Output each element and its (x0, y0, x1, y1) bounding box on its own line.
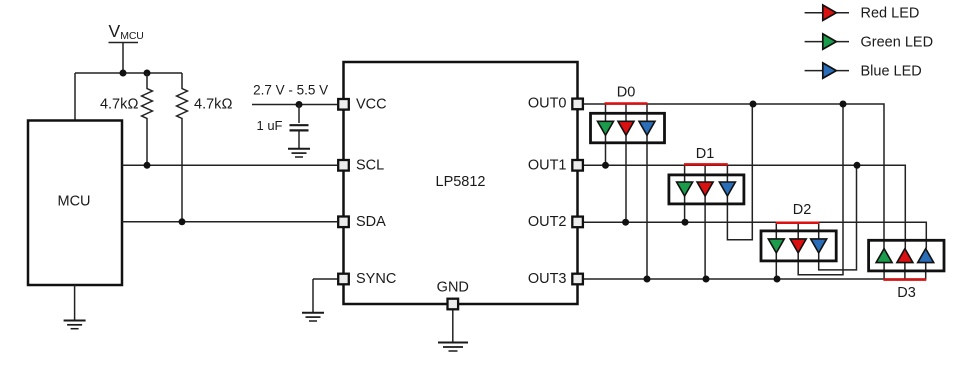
svg-text:Red LED: Red LED (861, 6, 920, 22)
svg-text:D2: D2 (793, 202, 812, 218)
svg-text:MCU: MCU (120, 30, 143, 42)
svg-text:SCL: SCL (356, 157, 384, 173)
svg-text:V: V (109, 21, 121, 41)
svg-text:D1: D1 (696, 146, 715, 162)
svg-text:MCU: MCU (57, 194, 90, 210)
svg-text:4.7kΩ: 4.7kΩ (100, 97, 139, 113)
svg-text:D3: D3 (897, 285, 916, 301)
svg-text:2.7 V - 5.5 V: 2.7 V - 5.5 V (253, 83, 328, 98)
svg-text:SDA: SDA (356, 214, 386, 230)
svg-text:1 uF: 1 uF (256, 118, 282, 133)
svg-text:SYNC: SYNC (356, 271, 396, 287)
svg-text:GND: GND (437, 280, 469, 296)
svg-text:4.7kΩ: 4.7kΩ (194, 97, 233, 113)
svg-text:OUT0: OUT0 (528, 96, 567, 112)
svg-text:Blue LED: Blue LED (861, 63, 922, 79)
svg-text:Green LED: Green LED (861, 34, 934, 50)
svg-text:OUT1: OUT1 (528, 157, 567, 173)
svg-text:VCC: VCC (356, 97, 387, 113)
svg-text:D0: D0 (617, 85, 636, 101)
svg-text:OUT2: OUT2 (528, 214, 567, 230)
svg-text:OUT3: OUT3 (528, 271, 567, 287)
svg-text:LP5812: LP5812 (436, 174, 486, 190)
